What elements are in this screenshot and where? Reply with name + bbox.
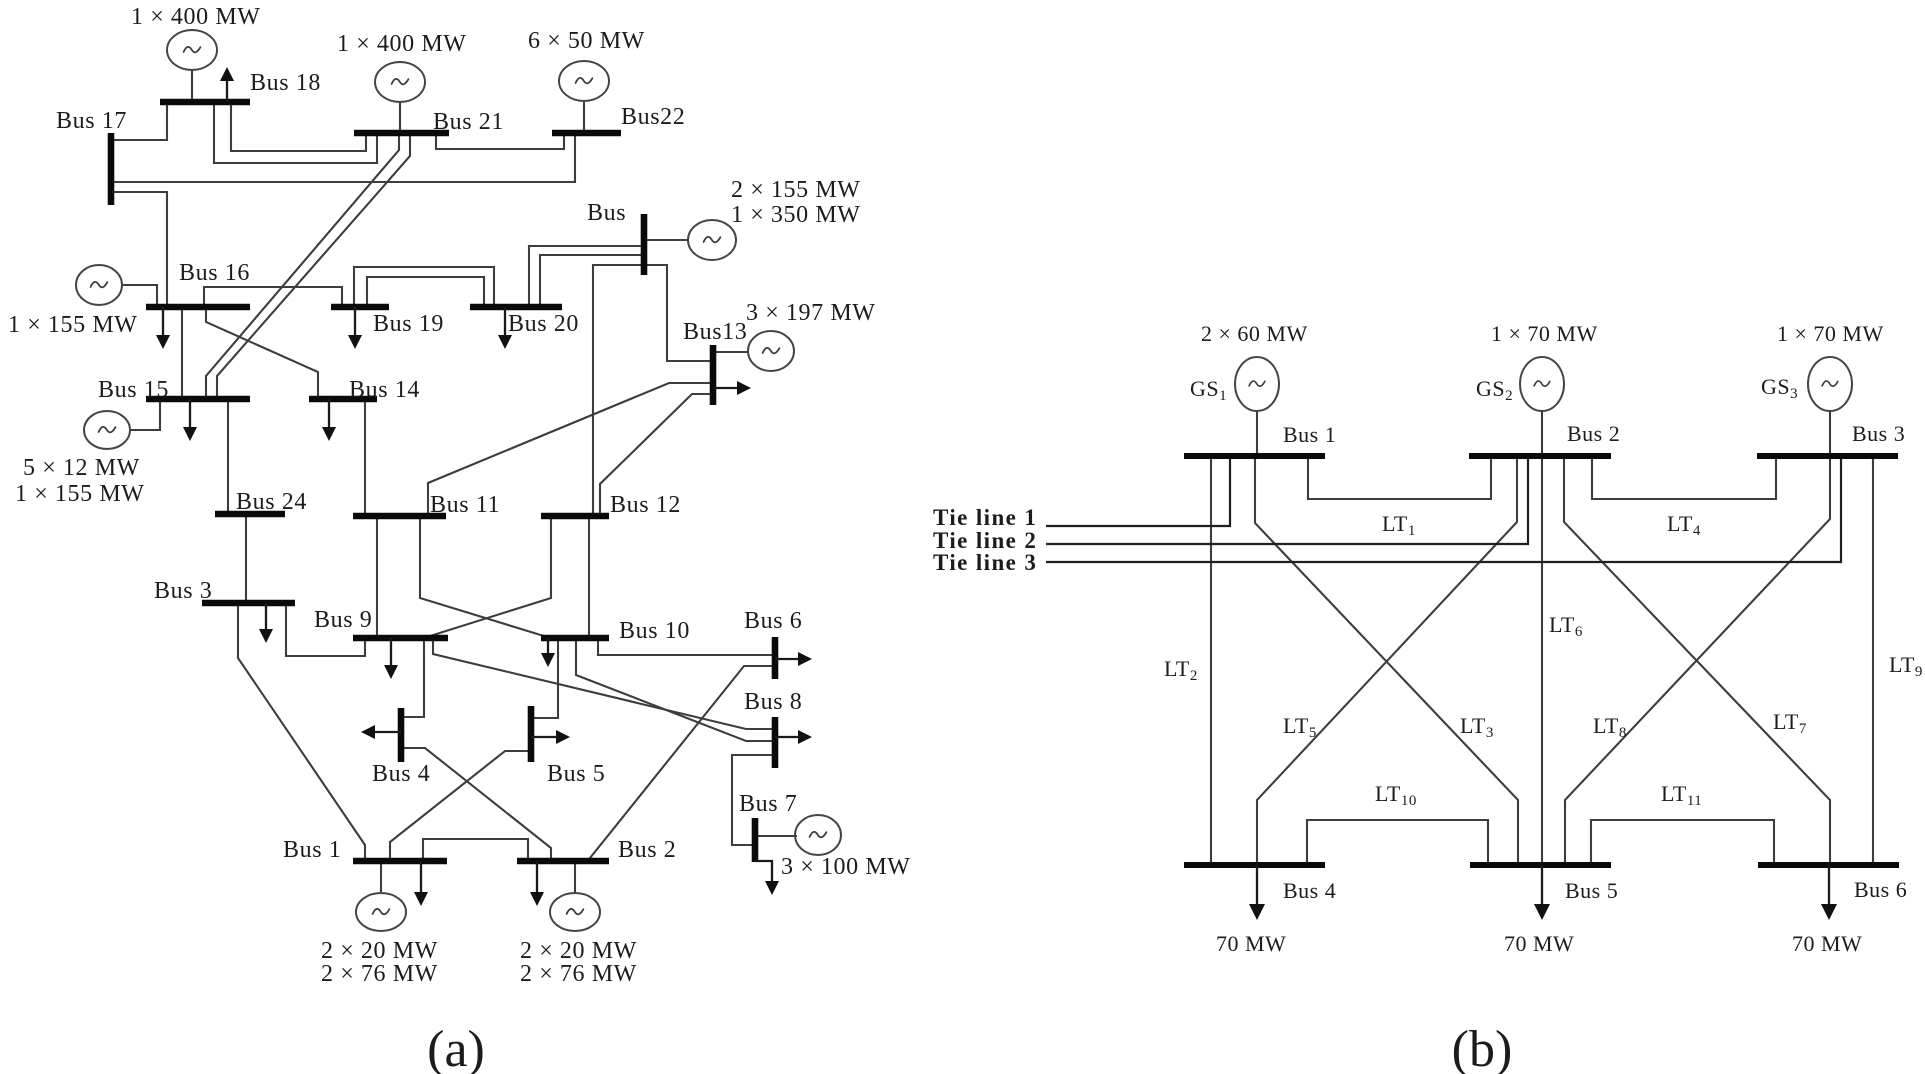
svg-text:Bus22: Bus22 — [621, 104, 685, 130]
svg-text:1 × 155 MW: 1 × 155 MW — [15, 481, 145, 507]
svg-text:Bus 17: Bus 17 — [56, 108, 127, 134]
svg-text:Bus 6: Bus 6 — [744, 608, 802, 634]
svg-text:Tie line 1: Tie line 1 — [933, 505, 1037, 530]
svg-text:Bus 3: Bus 3 — [1852, 421, 1905, 446]
svg-text:Bus 7: Bus 7 — [739, 791, 797, 817]
svg-text:Bus 5: Bus 5 — [547, 761, 605, 787]
svg-text:70 MW: 70 MW — [1792, 931, 1862, 956]
svg-text:Bus 21: Bus 21 — [433, 109, 504, 135]
svg-text:Bus 19: Bus 19 — [373, 311, 444, 337]
svg-text:Tie line 3: Tie line 3 — [933, 550, 1037, 575]
svg-text:Bus 9: Bus 9 — [314, 607, 372, 633]
svg-text:Bus 12: Bus 12 — [610, 492, 681, 518]
svg-text:Bus 4: Bus 4 — [372, 761, 430, 787]
svg-text:2 × 76 MW: 2 × 76 MW — [520, 961, 637, 987]
svg-text:5 × 12 MW: 5 × 12 MW — [23, 455, 140, 481]
svg-text:1 × 400 MW: 1 × 400 MW — [131, 4, 261, 30]
svg-text:Bus 18: Bus 18 — [250, 70, 321, 96]
svg-text:Bus 15: Bus 15 — [98, 377, 169, 403]
svg-text:Bus 1: Bus 1 — [283, 837, 341, 863]
svg-text:Bus 24: Bus 24 — [236, 489, 307, 515]
svg-text:(b): (b) — [1452, 1021, 1513, 1074]
svg-text:Bus 11: Bus 11 — [430, 492, 500, 518]
svg-text:Bus 1: Bus 1 — [1283, 422, 1336, 447]
svg-text:3 × 197 MW: 3 × 197 MW — [746, 300, 876, 326]
svg-text:6 × 50 MW: 6 × 50 MW — [528, 28, 645, 54]
svg-text:2 × 76 MW: 2 × 76 MW — [321, 961, 438, 987]
svg-text:Bus 14: Bus 14 — [349, 377, 420, 403]
svg-text:70 MW: 70 MW — [1216, 931, 1286, 956]
svg-text:2 × 60 MW: 2 × 60 MW — [1201, 321, 1308, 346]
svg-text:1 × 400 MW: 1 × 400 MW — [337, 31, 467, 57]
svg-text:(a): (a) — [427, 1021, 485, 1074]
svg-text:Bus 2: Bus 2 — [1567, 421, 1620, 446]
svg-text:Bus 6: Bus 6 — [1854, 877, 1907, 902]
svg-text:1 × 70 MW: 1 × 70 MW — [1777, 321, 1884, 346]
svg-text:2 × 155 MW: 2 × 155 MW — [731, 177, 861, 203]
svg-text:70 MW: 70 MW — [1504, 931, 1574, 956]
svg-text:Bus 5: Bus 5 — [1565, 878, 1618, 903]
svg-text:Bus 8: Bus 8 — [744, 689, 802, 715]
svg-text:Bus13: Bus13 — [683, 319, 747, 345]
svg-text:Bus 3: Bus 3 — [154, 578, 212, 604]
svg-text:Bus 16: Bus 16 — [179, 260, 250, 286]
svg-text:1 × 350 MW: 1 × 350 MW — [731, 202, 861, 228]
svg-text:Bus 2: Bus 2 — [618, 837, 676, 863]
svg-text:1 × 70 MW: 1 × 70 MW — [1491, 321, 1598, 346]
svg-text:3 × 100 MW: 3 × 100 MW — [781, 854, 911, 880]
svg-text:Bus 20: Bus 20 — [508, 311, 579, 337]
svg-text:1 × 155 MW: 1 × 155 MW — [8, 312, 138, 338]
svg-text:Bus: Bus — [587, 200, 626, 226]
svg-text:Bus 10: Bus 10 — [619, 618, 690, 644]
svg-text:Bus 4: Bus 4 — [1283, 878, 1336, 903]
